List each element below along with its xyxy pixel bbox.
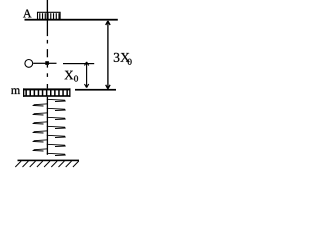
ceiling hatched support bbox=[38, 12, 61, 19]
support rod bbox=[47, 0, 48, 20]
label X0 bbox=[65, 71, 74, 80]
X0 dimension arrow bbox=[85, 62, 89, 88]
ball center dot bbox=[45, 61, 49, 65]
ground hatching bbox=[15, 161, 79, 167]
spring coil bbox=[33, 99, 65, 155]
label 3X0 bbox=[114, 53, 130, 62]
ball level line bbox=[33, 63, 56, 64]
ground line bbox=[18, 160, 80, 162]
centerline (dash-dot axis) bbox=[47, 20, 48, 88]
spring axis line bbox=[47, 97, 48, 155]
ceiling line bbox=[25, 19, 118, 21]
3X0 dimension arrow bbox=[106, 21, 110, 89]
reference line (mass top level) bbox=[75, 89, 116, 91]
label A bbox=[23, 10, 32, 18]
mass block (hatched) bbox=[23, 88, 71, 96]
ball (circle at A) bbox=[25, 60, 33, 68]
label m bbox=[11, 88, 20, 94]
